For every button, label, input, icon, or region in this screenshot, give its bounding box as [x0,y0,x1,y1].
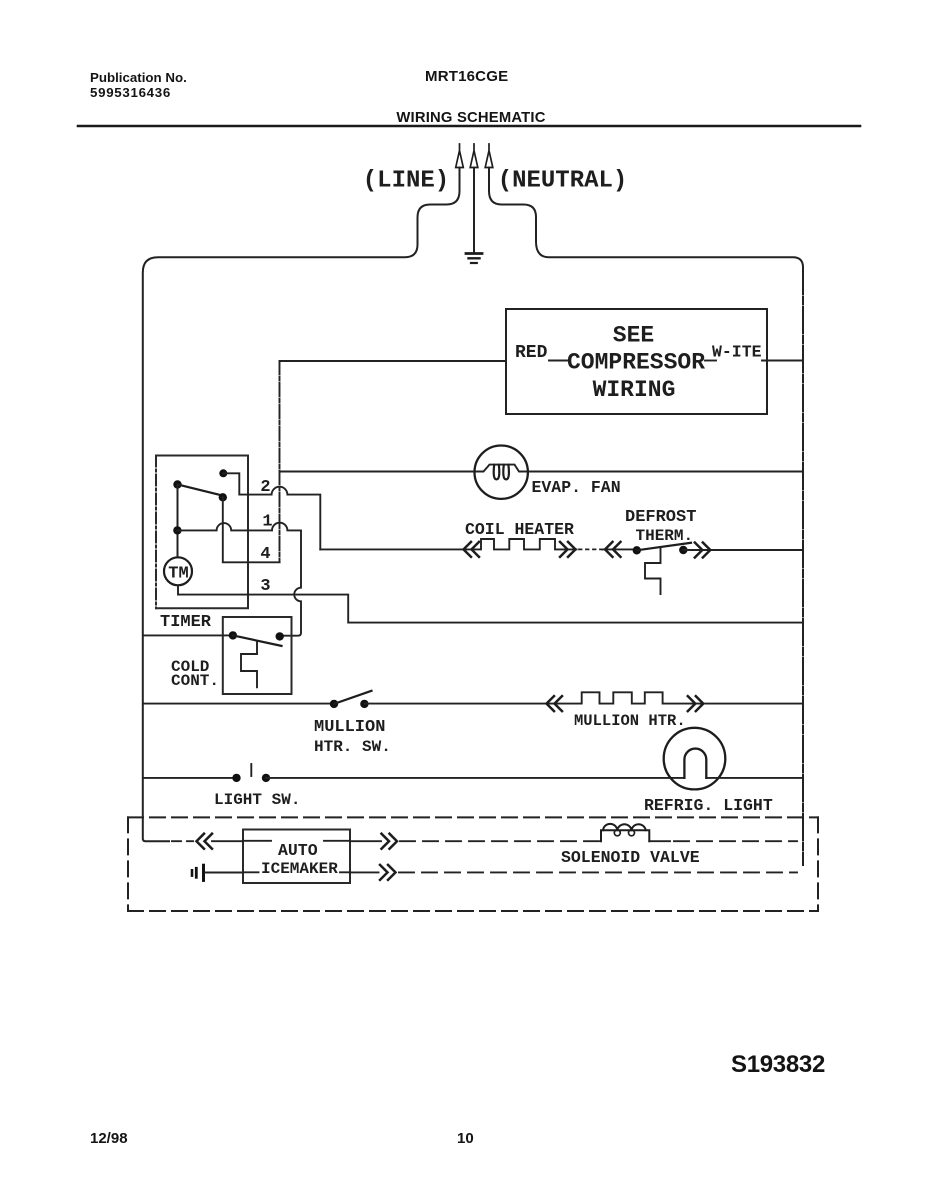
wire solenoid to right dashed [649,840,670,842]
header publication no [90,70,187,100]
wire inside box line2 [243,871,350,873]
timer junction dot [173,526,181,534]
auto icemaker box [243,830,350,884]
light switch right dot [262,774,270,782]
label SEE COMPRESSOR WIRING [567,323,705,404]
svg-text:ICEMAKER: ICEMAKER [261,860,338,878]
timer motor TM circle [164,557,192,585]
compressor box U1 [506,309,767,414]
icemaker chevrons right [382,834,398,849]
svg-text:3: 3 [260,577,270,596]
svg-text:12/98: 12/98 [90,1130,128,1147]
wire segment RED-COMPRESSOR inside box [549,360,567,362]
defrost chevrons left [605,542,621,557]
wire defrost to right edge [683,549,803,551]
light switch actuator tick [250,764,252,776]
coil heater chevrons right [560,542,576,557]
evap fan motor circle [475,446,528,499]
svg-text:HTR. SW.: HTR. SW. [314,738,391,756]
wire segment COMPRESSOR-WHITE inside box [705,360,716,362]
label COLD CONT. [171,658,219,690]
svg-text:THERM.: THERM. [636,527,694,545]
svg-text:4: 4 [260,545,270,564]
wire WHITE to right edge [762,360,803,362]
timer blade tip dot [219,493,227,501]
label DEFROST THERM. [625,508,696,545]
wire dashed to solenoid [400,840,601,842]
svg-text:W-ITE: W-ITE [712,343,762,362]
defrost therm staircase [645,548,661,595]
wire icemaker dash segment [172,840,193,842]
ground stem [473,168,475,253]
svg-text:LIGHT SW.: LIGHT SW. [214,791,300,809]
wire icemaker out right [350,840,381,842]
defrost chevrons right [695,543,711,558]
mullion switch right dot [360,700,368,708]
mullion chevrons left [547,696,563,711]
svg-text:TM: TM [168,565,188,584]
wire mullion line left [143,703,334,705]
svg-text:2: 2 [260,478,270,497]
line arrow 2 (ground) [470,144,478,168]
defrost therm left dot [633,546,641,554]
svg-text:Publication No.: Publication No. [90,70,187,85]
dashed enclosure box [128,817,818,911]
wire to cold control left contact [143,634,229,636]
wire right edge of enclosure [802,268,804,866]
svg-text:1: 1 [262,513,272,532]
wire timer top contact to terminal 2 [223,473,320,549]
svg-text:CONT.: CONT. [171,672,219,690]
water supply symbol [192,865,204,880]
wire water to icemaker box [205,872,243,874]
mullion chevrons right [688,696,704,711]
icemaker chevrons left [197,834,213,849]
wire evap fan line [280,465,804,472]
svg-text:COIL HEATER: COIL HEATER [465,520,574,539]
mullion switch blade [334,691,372,704]
timer switch blade [178,485,223,496]
defrost therm right dot [679,546,687,554]
svg-text:SEE: SEE [613,323,654,349]
wire RED to compressor [280,360,507,362]
svg-text:(NEUTRAL): (NEUTRAL) [498,168,628,195]
svg-text:SOLENOID VALVE: SOLENOID VALVE [561,848,700,867]
wire dotted gap segment [579,548,602,550]
timer pivot dot [173,480,181,488]
timer contact dot top [219,469,227,477]
defrost therm blade [637,543,691,551]
svg-text:TIMER: TIMER [160,613,212,632]
svg-text:WIRING SCHEMATIC: WIRING SCHEMATIC [396,110,545,126]
wire lamp to right edge [706,777,803,779]
cold control left dot [229,631,237,639]
svg-text:MULLION: MULLION [314,718,385,737]
wire light line to lamp [266,777,684,779]
light switch left dot [232,774,240,782]
label AUTO ICEMAKER [261,841,338,878]
wire blade tip to terminal 4 [223,497,280,562]
svg-text:COMPRESSOR: COMPRESSOR [567,350,705,376]
svg-text:EVAP. FAN: EVAP. FAN [532,478,621,497]
wire dashed line2 right [399,871,797,873]
evap fan winding loop 1 [494,465,500,480]
refrig light circle [664,728,726,790]
mullion switch left dot [330,700,338,708]
wire icemaker line2 out [350,871,379,873]
wire pivot down to TM motor [177,485,179,558]
svg-text:5995316436: 5995316436 [90,85,171,100]
header rule [78,125,860,128]
wire inside box line1 [243,840,350,842]
icemaker line2 chevrons right [380,865,396,880]
wire terminal 1 from junction to cold control [177,523,301,636]
line arrow 3 (neutral) [485,144,493,168]
wire chevron to icemaker box [212,840,243,842]
line arrow 1 [456,144,464,168]
cold control thermostat staircase [241,642,257,688]
svg-text:RED: RED [515,343,548,363]
wire terminal4 to RED riser (dash-dot) [279,361,281,562]
ground symbol [466,254,482,264]
svg-text:MRT16CGE: MRT16CGE [425,68,508,85]
wire light line left [143,777,237,779]
wire mullion heater element [364,692,803,703]
cold control right dot [276,632,284,640]
wire to defrost thermostat [602,548,633,550]
evap fan winding loop 2 [503,465,509,480]
cold control blade [233,635,282,646]
label MULLION HTR. SW. [314,718,391,756]
wire terminal 3 from TM bottom across [178,585,803,622]
coil heater chevrons left [464,542,480,557]
svg-text:DEFROST: DEFROST [625,508,696,527]
timer box [156,456,248,609]
refrig light lamp filament [684,749,706,778]
cold control box [223,617,292,694]
svg-text:REFRIG. LIGHT: REFRIG. LIGHT [644,796,773,815]
svg-text:WIRING: WIRING [593,377,676,403]
wire NEUTRAL feed: arrow to top edge and down right side of box [489,168,803,268]
wire LINE feed: arrow to top edge and down left side of box [143,168,460,842]
svg-text:MULLION HTR.: MULLION HTR. [574,712,686,730]
solenoid valve coil [601,824,649,841]
svg-text:(LINE): (LINE) [363,168,449,195]
svg-text:AUTO: AUTO [278,841,318,860]
wire coil heater line with element [320,539,576,549]
svg-text:10: 10 [457,1130,474,1147]
svg-text:S193832: S193832 [731,1051,825,1078]
